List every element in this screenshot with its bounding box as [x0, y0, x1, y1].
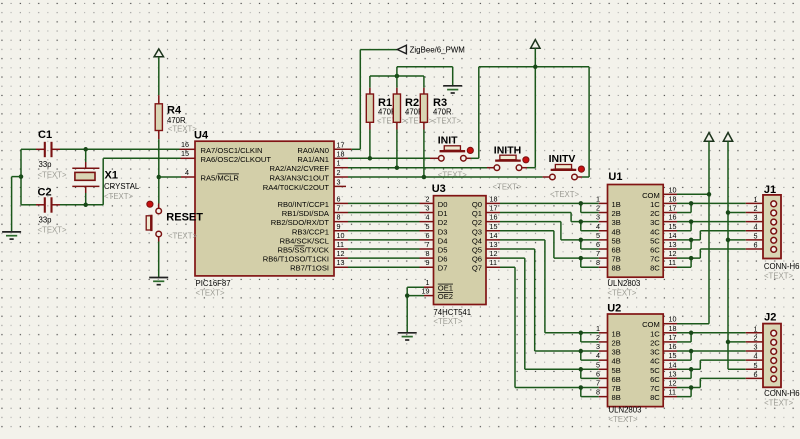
svg-text:<TEXT>: <TEXT> — [377, 116, 406, 125]
svg-text:U1: U1 — [608, 171, 622, 183]
svg-text:2: 2 — [337, 168, 341, 177]
svg-text:<TEXT>: <TEXT> — [550, 190, 579, 199]
junction Q2 pair — [579, 238, 584, 243]
power VCC (buttons) — [531, 40, 540, 49]
svg-text:D6: D6 — [438, 255, 448, 264]
push button INITH — [494, 155, 529, 170]
junction 5C/6C (J1) — [689, 238, 694, 243]
svg-text:16: 16 — [669, 213, 677, 222]
svg-text:4: 4 — [185, 168, 189, 177]
wire RB1 to D1 — [334, 212, 434, 214]
push button RESET — [146, 201, 161, 237]
svg-text:11: 11 — [669, 258, 676, 267]
svg-text:8C: 8C — [650, 393, 660, 402]
svg-text:D3: D3 — [438, 227, 448, 236]
svg-text:2: 2 — [596, 333, 600, 342]
svg-text:18: 18 — [669, 194, 677, 203]
wire X1 bottom lead — [85, 186, 87, 204]
svg-text:6C: 6C — [650, 246, 660, 255]
svg-text:RA2/AN2/CVREF: RA2/AN2/CVREF — [269, 164, 329, 173]
svg-text:Q1: Q1 — [472, 209, 482, 218]
wire RB2 to D2 — [334, 221, 434, 223]
svg-text:RB6/T1OSO/T1CKI: RB6/T1OSO/T1CKI — [263, 255, 329, 264]
wire OSC1 net (C1 - X1 top - U4 pin16) — [21, 148, 195, 150]
svg-text:10: 10 — [337, 231, 345, 240]
svg-text:17: 17 — [669, 333, 677, 342]
svg-text:2: 2 — [754, 204, 758, 213]
wire 8C stub (J2) — [663, 396, 691, 398]
svg-text:16: 16 — [181, 140, 189, 149]
svg-text:RA0/AN0: RA0/AN0 — [297, 146, 329, 155]
svg-text:3: 3 — [754, 213, 758, 222]
svg-text:13: 13 — [669, 240, 677, 249]
svg-text:8B: 8B — [612, 264, 621, 273]
svg-text:4: 4 — [426, 213, 430, 222]
wire to RESET top pin — [158, 204, 160, 209]
wire R3 top — [423, 76, 425, 94]
junction Q7 pair — [579, 385, 584, 390]
junction Q5 pair — [579, 349, 584, 354]
svg-text:4B: 4B — [612, 357, 621, 366]
svg-text:6B: 6B — [612, 375, 621, 384]
wire 7C/8C to J2.6 — [663, 378, 771, 396]
svg-text:<TEXT>: <TEXT> — [168, 232, 197, 241]
svg-text:<TEXT>: <TEXT> — [104, 192, 133, 201]
wire 1C/2C to J1.1 — [663, 203, 771, 212]
junction R2/RA2 — [395, 165, 400, 170]
wire 8C stub (J1) — [663, 266, 691, 268]
svg-text:18: 18 — [490, 194, 498, 203]
wire RA4 stub — [334, 185, 346, 187]
capacitor C2 — [45, 197, 52, 212]
junction R2 top rail — [395, 74, 400, 79]
svg-text:<TEXT>: <TEXT> — [607, 289, 636, 298]
wire 4C stub (J2) — [663, 359, 691, 361]
svg-text:5C: 5C — [650, 366, 660, 375]
wire R2 top — [396, 67, 398, 94]
svg-text:4: 4 — [596, 351, 600, 360]
wire button power rail — [479, 66, 589, 68]
ic U1 ULN2803 body — [608, 185, 664, 278]
svg-text:2C: 2C — [650, 209, 660, 218]
svg-text:RA6/OSC2/CLKOUT: RA6/OSC2/CLKOUT — [201, 155, 272, 164]
wire Q5 to U2 3B/4B — [486, 249, 608, 360]
wire R3 bottom — [423, 122, 425, 177]
svg-text:12: 12 — [337, 249, 345, 258]
svg-text:5C: 5C — [650, 236, 660, 245]
svg-text:18: 18 — [669, 324, 677, 333]
power VCC (U1/U2 COM) — [704, 133, 713, 142]
svg-text:D5: D5 — [438, 246, 448, 255]
svg-text:5B: 5B — [612, 366, 621, 375]
wire OE2 to ground bend — [407, 295, 433, 297]
junction Q6 pair — [579, 367, 584, 372]
svg-text:5: 5 — [754, 361, 758, 370]
crystal X1 — [72, 168, 99, 186]
capacitor C1 — [45, 142, 52, 157]
svg-text:2: 2 — [426, 194, 430, 203]
svg-text:RA1/AN1: RA1/AN1 — [297, 155, 329, 164]
wire Q0 to U1 1B/2B — [486, 203, 608, 212]
svg-text:D7: D7 — [438, 264, 448, 273]
wire X1 top lead — [85, 149, 87, 168]
svg-text:Q4: Q4 — [472, 236, 482, 245]
wire Q2 to U1 5B/6B — [486, 222, 608, 249]
pin hole J1.6 — [771, 247, 777, 253]
wire left rail (C1 to C2) — [20, 149, 22, 205]
junction 3C/4C (J2) — [689, 349, 694, 354]
pin hole J1.2 — [771, 210, 777, 216]
svg-text:14: 14 — [669, 231, 677, 240]
wire VCC stem to INITH — [534, 48, 536, 168]
wire 6C stub (J1) — [663, 248, 691, 250]
svg-text:<TEXT>: <TEXT> — [168, 124, 197, 133]
svg-text:11: 11 — [490, 258, 497, 267]
junction common J2.2 — [726, 340, 731, 345]
svg-text:9: 9 — [426, 258, 430, 267]
wire 7C/8C to J1.6 — [663, 249, 771, 267]
svg-text:33p: 33p — [39, 215, 53, 224]
wire INITV to power drop — [577, 176, 589, 178]
svg-text:4C: 4C — [650, 357, 660, 366]
svg-text:CONN-H6: CONN-H6 — [764, 389, 800, 398]
wire RA0 to ZigBee terminal — [334, 50, 398, 150]
junction X1 bottom — [83, 203, 88, 208]
svg-text:6C: 6C — [650, 375, 660, 384]
svg-text:J2: J2 — [764, 311, 776, 323]
wire 5C/6C to J1.4 — [663, 231, 771, 249]
svg-text:7: 7 — [596, 249, 600, 258]
junction 5C/6C (J2) — [689, 367, 694, 372]
pin hole J1.1 — [771, 201, 777, 207]
wire VCC to R4 — [158, 57, 160, 104]
svg-text:RA7/OSC1/CLKIN: RA7/OSC1/CLKIN — [201, 146, 263, 155]
wire common to J1.5 — [728, 239, 771, 241]
svg-text:<TEXT>: <TEXT> — [609, 415, 638, 424]
svg-text:CRYSTAL: CRYSTAL — [104, 182, 140, 191]
svg-text:8B: 8B — [612, 393, 621, 402]
svg-text:8: 8 — [426, 249, 430, 258]
svg-text:6: 6 — [754, 241, 758, 250]
wire Q4 to U2 1B/2B — [486, 240, 608, 342]
wire 4C stub (J1) — [663, 230, 691, 232]
wire RB3 to D3 — [334, 230, 434, 232]
wire U4 pin15 row — [103, 157, 195, 159]
wire RB0 to D0 — [334, 202, 434, 204]
svg-text:13: 13 — [337, 258, 345, 267]
svg-text:RB4/SCK/SCL: RB4/SCK/SCL — [280, 236, 329, 245]
junction OE2 — [405, 293, 410, 298]
svg-text:9: 9 — [337, 222, 341, 231]
svg-text:RB5/SS/TX/CK: RB5/SS/TX/CK — [277, 246, 329, 255]
wire 1C/2C to J2.1 — [663, 333, 771, 342]
svg-text:15: 15 — [181, 149, 189, 158]
svg-text:4C: 4C — [650, 227, 660, 236]
pin hole J2.3 — [771, 349, 777, 355]
svg-text:Q5: Q5 — [472, 246, 482, 255]
svg-text:3: 3 — [596, 213, 600, 222]
svg-text:5: 5 — [596, 231, 600, 240]
svg-text:13: 13 — [490, 240, 498, 249]
pin hole J2.2 — [771, 339, 777, 345]
svg-text:<TEXT>: <TEXT> — [38, 170, 67, 179]
svg-text:R4: R4 — [167, 105, 182, 117]
svg-text:8: 8 — [337, 213, 341, 222]
svg-text:10: 10 — [669, 315, 677, 324]
svg-text:COM: COM — [642, 191, 660, 200]
svg-text:15: 15 — [669, 222, 677, 231]
wire OSC2 vertical bend to U4 pin15 — [102, 158, 104, 205]
junction 1C/2C (J1) — [689, 201, 694, 206]
svg-text:18: 18 — [337, 149, 345, 158]
wire COM vertical (arrow to U2 COM) — [708, 141, 710, 323]
svg-text:RB0/INT/CCP1: RB0/INT/CCP1 — [278, 200, 329, 209]
pin hole J1.4 — [771, 228, 777, 234]
svg-text:7: 7 — [337, 204, 341, 213]
wire RB5 to D5 — [334, 248, 434, 250]
svg-text:U4: U4 — [194, 129, 209, 141]
wire INITH to power stem — [522, 167, 536, 169]
junction 1C/2C (J2) — [689, 331, 694, 336]
svg-text:5: 5 — [596, 360, 600, 369]
wire U2 COM — [663, 323, 709, 325]
svg-text:D2: D2 — [438, 218, 448, 227]
svg-text:CONN-H6: CONN-H6 — [764, 262, 800, 271]
svg-text:4B: 4B — [612, 227, 621, 236]
wire 5C/6C to J2.4 — [663, 360, 771, 378]
svg-text:ULN2803: ULN2803 — [607, 279, 640, 288]
svg-text:2B: 2B — [612, 338, 621, 347]
connector J1 body — [763, 195, 781, 259]
junction 3C/4C (J1) — [689, 219, 694, 224]
wire common to J1.2 — [728, 212, 771, 214]
svg-text:Q6: Q6 — [472, 255, 482, 264]
svg-text:INIT: INIT — [438, 134, 458, 146]
svg-text:Q0: Q0 — [472, 200, 482, 209]
svg-text:3C: 3C — [650, 218, 660, 227]
svg-text:D4: D4 — [438, 236, 448, 245]
svg-text:3: 3 — [337, 177, 341, 186]
svg-text:RA5/MCLR: RA5/MCLR — [201, 174, 240, 183]
resistor R1 — [366, 94, 373, 122]
pin hole J2.5 — [771, 367, 777, 373]
svg-text:INITV: INITV — [549, 153, 576, 165]
wire R4 to MCLR junction — [158, 131, 160, 204]
svg-text:6: 6 — [596, 369, 600, 378]
junction power rail — [533, 65, 538, 70]
wire R1-R3 top rail — [370, 75, 424, 77]
svg-text:<TEXT>: <TEXT> — [404, 116, 433, 125]
pin hole J2.1 — [771, 330, 777, 336]
svg-text:1: 1 — [337, 159, 341, 168]
svg-text:11: 11 — [669, 388, 676, 397]
wire Q6 to U2 5B/6B — [486, 258, 608, 378]
pin hole J2.6 — [771, 376, 777, 382]
pin hole J2.4 — [771, 358, 777, 364]
svg-text:10: 10 — [669, 185, 677, 194]
wire U1 COM — [663, 193, 709, 195]
wire INIT to power drop — [466, 157, 479, 159]
svg-text:<TEXT>: <TEXT> — [38, 225, 67, 234]
svg-text:ZigBee/6_PWM: ZigBee/6_PWM — [410, 45, 465, 54]
svg-text:ULN2803: ULN2803 — [609, 405, 642, 414]
power VCC (J1/J2 common) — [723, 133, 732, 142]
svg-text:RA3/AN3/C1OUT: RA3/AN3/C1OUT — [269, 174, 329, 183]
svg-text:X1: X1 — [105, 169, 118, 181]
svg-text:Q2: Q2 — [472, 218, 482, 227]
wire ground rail — [397, 67, 453, 86]
svg-text:12: 12 — [669, 249, 677, 258]
wire OE1 to ground bend — [407, 287, 433, 332]
wire RA2 row to INITH — [334, 167, 494, 169]
svg-text:1C: 1C — [650, 329, 660, 338]
svg-text:RB7/T1OSI: RB7/T1OSI — [290, 264, 329, 273]
svg-text:D0: D0 — [438, 200, 448, 209]
wire OSC2 net (C2 - X1 bottom - bend) — [21, 204, 103, 206]
svg-text:U2: U2 — [607, 303, 621, 315]
svg-text:Q7: Q7 — [472, 264, 482, 273]
svg-text:1: 1 — [596, 194, 600, 203]
svg-text:33p: 33p — [39, 160, 53, 169]
wire ground branch — [12, 177, 21, 232]
junction common J1.5 — [726, 238, 731, 243]
ground (U3) — [398, 333, 417, 340]
svg-text:COM: COM — [642, 320, 660, 329]
svg-text:PIC16F87: PIC16F87 — [196, 279, 231, 288]
svg-text:<TEXT>: <TEXT> — [438, 170, 467, 179]
svg-text:6: 6 — [596, 240, 600, 249]
wire 6C stub (J2) — [663, 377, 691, 379]
junction MCLR — [157, 175, 162, 180]
junction X1 top — [83, 147, 88, 152]
wire RA1 row to INIT — [334, 157, 439, 159]
wire 2C stub (J1) — [663, 212, 691, 214]
wire R1 bottom — [369, 122, 371, 158]
svg-text:D1: D1 — [438, 209, 448, 218]
wire 2C stub (J2) — [663, 341, 691, 343]
svg-text:1B: 1B — [612, 200, 621, 209]
svg-text:<TEXT>: <TEXT> — [764, 398, 793, 407]
svg-text:14: 14 — [490, 231, 498, 240]
svg-text:11: 11 — [337, 240, 344, 249]
svg-text:16: 16 — [490, 213, 498, 222]
svg-text:6B: 6B — [612, 246, 621, 255]
junction Q0 pair — [579, 201, 584, 206]
junction left rail — [19, 174, 24, 179]
svg-text:3B: 3B — [612, 218, 621, 227]
svg-text:<TEXT>: <TEXT> — [493, 183, 522, 192]
push button INITV — [550, 165, 585, 180]
junction Q1 pair — [579, 219, 584, 224]
wire RB7 to D7 — [334, 266, 434, 268]
svg-text:<TEXT>: <TEXT> — [196, 288, 225, 297]
svg-text:7C: 7C — [650, 384, 660, 393]
svg-text:6: 6 — [754, 370, 758, 379]
svg-text:3B: 3B — [612, 348, 621, 357]
junction 7C/8C (J1) — [689, 256, 694, 261]
wire RB6 to D6 — [334, 257, 434, 259]
svg-text:7B: 7B — [612, 384, 621, 393]
svg-text:<TEXT>: <TEXT> — [432, 116, 461, 125]
svg-text:U3: U3 — [432, 183, 446, 195]
svg-text:17: 17 — [337, 140, 345, 149]
wire MCLR row to U4 pin4 — [159, 176, 195, 178]
svg-text:1B: 1B — [612, 329, 621, 338]
svg-text:7C: 7C — [650, 255, 660, 264]
junction U1 COM — [707, 192, 712, 197]
svg-text:5: 5 — [426, 222, 430, 231]
wire RB4 to D4 — [334, 239, 434, 241]
ground (top) — [443, 86, 462, 93]
svg-text:8: 8 — [596, 388, 600, 397]
svg-text:C1: C1 — [38, 129, 52, 141]
svg-text:3: 3 — [596, 342, 600, 351]
svg-text:16: 16 — [669, 342, 677, 351]
svg-text:RB1/SDI/SDA: RB1/SDI/SDA — [282, 209, 330, 218]
svg-text:8C: 8C — [650, 264, 660, 273]
ic U4 PIC16F87 body — [195, 141, 334, 276]
svg-text:1: 1 — [754, 195, 758, 204]
svg-text:15: 15 — [490, 222, 498, 231]
svg-text:6: 6 — [426, 231, 430, 240]
svg-text:OE2: OE2 — [438, 292, 453, 301]
svg-text:RB2/SDO/RX/DT: RB2/SDO/RX/DT — [271, 218, 330, 227]
junction Q3 pair — [579, 256, 584, 261]
wire RESET bottom to ground — [158, 237, 160, 277]
resistor R4 — [155, 104, 162, 131]
junction 7C/8C (J2) — [689, 385, 694, 390]
junction Q4 pair — [579, 331, 584, 336]
wire INITV pullup drop — [588, 67, 590, 177]
junction common J1.2 — [726, 210, 731, 215]
svg-text:6: 6 — [337, 194, 341, 203]
svg-text:13: 13 — [669, 369, 677, 378]
wire 3C/4C to J2.3 — [663, 351, 771, 360]
svg-text:<TEXT>: <TEXT> — [433, 317, 462, 326]
svg-text:Q3: Q3 — [472, 227, 482, 236]
ic U2 ULN2803 body — [608, 314, 664, 407]
svg-text:J1: J1 — [764, 184, 776, 196]
junction R3/RA3 — [422, 175, 427, 180]
svg-text:12: 12 — [669, 379, 677, 388]
wire 3C/4C to J1.3 — [663, 222, 771, 231]
svg-text:5B: 5B — [612, 236, 621, 245]
svg-text:RA4/T0CKI/C2OUT: RA4/T0CKI/C2OUT — [263, 183, 330, 192]
svg-text:12: 12 — [490, 249, 498, 258]
svg-text:1: 1 — [754, 324, 758, 333]
wire common to J2.5 — [728, 368, 771, 370]
wire R1 top — [369, 76, 371, 94]
svg-text:17: 17 — [490, 204, 498, 213]
svg-text:7: 7 — [426, 240, 430, 249]
svg-text:<TEXT>: <TEXT> — [764, 271, 793, 280]
ic U3 74HCT541 body — [434, 196, 487, 305]
wire INIT pullup drop — [478, 67, 480, 159]
svg-text:1C: 1C — [650, 200, 660, 209]
svg-text:3: 3 — [754, 343, 758, 352]
svg-text:RESET: RESET — [166, 211, 203, 223]
wire Q3 to U1 7B/8B — [486, 231, 608, 267]
ground (bottom left) — [2, 232, 21, 239]
svg-text:3: 3 — [426, 204, 430, 213]
ground (RESET) — [149, 278, 168, 285]
svg-text:INITH: INITH — [494, 144, 521, 156]
terminal ZigBee/6_PWM — [397, 45, 406, 54]
svg-text:4: 4 — [596, 222, 600, 231]
svg-text:4: 4 — [754, 352, 758, 361]
power VCC (above R4) — [154, 49, 163, 57]
wire J common vertical (arrow to J2.5) — [727, 141, 729, 369]
